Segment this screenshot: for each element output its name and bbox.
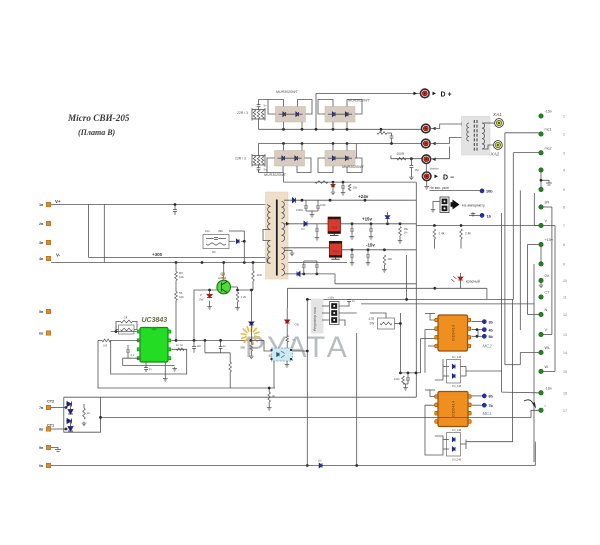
wire pack top up xyxy=(258,100,260,105)
svg-text:1k 1m: 1k 1m xyxy=(176,343,183,347)
wire MUR3020WT B internal xyxy=(328,113,352,115)
diode LED krasny xyxy=(458,277,463,280)
node j15d xyxy=(399,222,402,225)
svg-text:0в: 0в xyxy=(39,464,44,468)
wire ct1 link xyxy=(66,420,67,422)
wire 22R/3 top captop xyxy=(258,104,260,110)
label +15v xyxy=(362,217,372,222)
svg-text:+300: +300 xyxy=(152,252,163,257)
wire rail -15v post xyxy=(342,249,417,251)
svg-text:3b: 3b xyxy=(489,320,494,324)
resistor R sense xyxy=(102,339,111,342)
wire T1 pri bot xyxy=(267,263,271,264)
diode MUR3020WT B D1 xyxy=(332,112,335,116)
terminal pin 9 xyxy=(539,262,543,266)
label R7 xyxy=(179,291,183,295)
wire rail 15v post xyxy=(341,223,417,225)
label 10b xyxy=(486,190,493,194)
capacitor C out xyxy=(410,166,414,168)
label Dbus xyxy=(318,459,321,463)
current transformer T2 body xyxy=(462,116,491,155)
svg-text:15n: 15n xyxy=(415,168,420,172)
opto arrows xyxy=(281,351,285,358)
resistor R47 xyxy=(380,322,392,325)
label 1k xyxy=(124,316,128,320)
wire cbotb w2 xyxy=(316,267,318,274)
svg-text:7b: 7b xyxy=(489,404,494,408)
ground gnd opto xyxy=(285,363,290,367)
diode D u4a xyxy=(452,364,455,368)
wire 7b w xyxy=(472,404,482,406)
ground gcol xyxy=(546,183,552,185)
wire cbota w2 xyxy=(303,267,305,274)
node j ct1 xyxy=(65,428,68,431)
node j24c xyxy=(364,199,367,202)
resistor R47 box xyxy=(378,318,395,329)
rectifier module MUR3020WT A xyxy=(276,107,306,123)
wire ct out xyxy=(101,416,532,418)
wire c15b w xyxy=(351,224,353,229)
svg-text:10n: 10n xyxy=(205,229,210,233)
arrow krasny xyxy=(451,276,457,282)
label CT2 xyxy=(47,400,54,404)
svg-text:22R / 3: 22R / 3 xyxy=(235,157,246,161)
svg-text:V+: V+ xyxy=(55,199,61,204)
label Q1 xyxy=(221,272,226,276)
wire U4 in2 xyxy=(434,338,435,340)
wire snubP xyxy=(206,238,226,240)
IC U2 UC3843 body xyxy=(140,328,168,363)
svg-text:Micro СВИ-205: Micro СВИ-205 xyxy=(67,113,130,123)
connector XP3 xyxy=(422,139,431,148)
wire 7v w xyxy=(51,407,66,409)
terminal pin 5 xyxy=(539,187,543,191)
label 100R xyxy=(397,152,405,156)
wire Q1 right xyxy=(231,286,238,288)
arrow I hook xyxy=(524,400,536,409)
IC U4 driver xyxy=(435,315,471,351)
wire h wl xyxy=(520,352,539,354)
node j snubP xyxy=(243,240,246,243)
watermark text xyxy=(245,331,349,364)
label MUR3020WT D xyxy=(342,165,365,169)
watermark sun xyxy=(241,326,260,345)
terminal 6b xyxy=(482,394,486,398)
wire q1 e down xyxy=(250,290,252,319)
label 1n2 xyxy=(223,344,227,348)
svg-text:Varistor: Varistor xyxy=(430,167,439,171)
resistor R b1 xyxy=(252,271,255,281)
label D15 xyxy=(301,227,304,231)
wire long 223 xyxy=(416,225,539,227)
svg-text:20k: 20k xyxy=(388,257,393,261)
label du5 top xyxy=(452,428,462,432)
wire reg out1 xyxy=(339,302,349,306)
resistor R 1k4 xyxy=(433,229,436,239)
diode ZD dbus xyxy=(331,184,335,186)
wire ct2 v xyxy=(70,404,72,410)
wire u4 d loop xyxy=(443,366,449,368)
wire dblue1 c xyxy=(250,340,252,343)
node j gcol xyxy=(540,179,543,182)
svg-text:I: I xyxy=(545,404,546,408)
svg-text:4: 4 xyxy=(563,169,565,173)
node j15a xyxy=(351,222,354,225)
label 1pc xyxy=(404,231,409,235)
wire 4b w xyxy=(472,329,482,331)
capacitor 22R/3 bot cb xyxy=(257,168,261,170)
wire c24b w2 xyxy=(317,208,319,211)
svg-text:9: 9 xyxy=(563,262,565,266)
diode opto led xyxy=(277,353,279,357)
wire rail bot down xyxy=(334,274,336,284)
connector XP4 xyxy=(422,155,431,164)
label 0V 10 xyxy=(545,274,550,278)
wire 6b w xyxy=(472,395,482,397)
wire u4 feedback xyxy=(466,370,502,372)
wire v 400 xyxy=(399,313,401,373)
label R7v xyxy=(179,295,184,299)
wire mc1 stub xyxy=(505,132,539,134)
rectifier module MUR3020WT D xyxy=(325,151,355,167)
svg-text:MUR3020WT: MUR3020WT xyxy=(276,90,299,94)
gnd U4 xyxy=(425,313,435,315)
node j291 xyxy=(433,287,436,290)
wire CT in b xyxy=(466,137,469,139)
node j372c xyxy=(415,372,418,375)
wire u5 frame L xyxy=(430,390,435,397)
wire rail2 xyxy=(259,143,422,145)
capacitor C 24b xyxy=(316,206,320,208)
connector XA2 xyxy=(494,141,503,150)
wire bridge A loop2 xyxy=(298,100,313,115)
capacitor C o2 xyxy=(219,347,223,349)
snubber box xyxy=(203,235,229,249)
wire r14 down xyxy=(433,239,435,249)
T2 core xyxy=(474,120,477,151)
wire reg w1 xyxy=(322,305,330,307)
wire XP4 up xyxy=(432,147,450,159)
wire rchain a xyxy=(175,263,177,272)
diode D u5b xyxy=(452,447,455,451)
ground gnd out xyxy=(409,176,414,180)
label 8в xyxy=(39,428,44,432)
pin number 14 xyxy=(563,351,567,355)
terminal 4в xyxy=(46,256,50,260)
wire snubP out xyxy=(229,240,235,242)
svg-text:1.2k: 1.2k xyxy=(241,295,247,299)
svg-text:5b: 5b xyxy=(489,335,494,339)
svg-text:XA2: XA2 xyxy=(490,152,500,157)
node j15b xyxy=(370,222,373,225)
svg-text:17: 17 xyxy=(563,409,567,413)
title (Плата В) xyxy=(78,128,116,137)
wire D+ to XP4 link xyxy=(425,164,427,172)
svg-text:6в: 6в xyxy=(39,332,44,336)
label +15v 8 xyxy=(545,238,553,242)
node j372b xyxy=(407,372,410,375)
wire gcol 4-5 xyxy=(540,170,542,189)
resistor R low xyxy=(229,362,232,372)
wire rsense L xyxy=(98,339,102,341)
resistor R fb xyxy=(121,328,133,331)
wire u2 low v2 xyxy=(229,353,231,362)
ground gnd D- xyxy=(424,185,429,189)
wire reg out2 xyxy=(339,312,357,314)
wire fb in xyxy=(111,331,137,333)
label +24v xyxy=(358,194,369,199)
wire 8v w xyxy=(51,428,66,430)
wire rb1 jog xyxy=(251,289,253,291)
svg-text:6: 6 xyxy=(563,206,565,210)
svg-text:+15v: +15v xyxy=(328,296,335,300)
svg-text:7915: 7915 xyxy=(332,250,339,254)
svg-text:1N_148: 1N_148 xyxy=(452,458,462,462)
wire stub A283.5 xyxy=(283,122,285,129)
wire h 299 xyxy=(307,298,513,300)
wire 0v bus xyxy=(51,465,535,467)
svg-text:(Плата В): (Плата В) xyxy=(78,128,116,137)
capacitor C snubP xyxy=(214,238,218,240)
resistor R7 xyxy=(175,292,178,301)
svg-text:mc1: mc1 xyxy=(545,128,552,132)
label MUR3020WT B xyxy=(348,99,371,103)
wire MUR3020WT D internal xyxy=(328,157,352,159)
wire MUR3020WT A internal xyxy=(279,113,303,115)
wire c15b w2 xyxy=(351,231,353,235)
IC U2 pin L3 xyxy=(137,348,140,351)
wire 24gnd xyxy=(306,211,318,213)
diode LED blue 15v xyxy=(385,216,389,219)
label Регулятор тока xyxy=(313,307,317,331)
resistor R mid1 xyxy=(402,376,405,384)
arrow D+ arrow xyxy=(433,92,436,96)
diode D bus xyxy=(319,463,322,467)
node j rail2 302 xyxy=(301,142,304,145)
svg-text:D −: D − xyxy=(443,174,454,181)
label 1.4k xyxy=(439,232,445,236)
wire frame397 xyxy=(64,396,417,398)
optocoupler U3 xyxy=(272,348,293,361)
svg-text:3: 3 xyxy=(563,151,565,155)
wire cmid1 b xyxy=(407,380,409,384)
IC U2 pin R3 xyxy=(168,348,171,351)
label -16v 16 xyxy=(545,386,552,390)
svg-text:w: w xyxy=(293,339,295,342)
ground gnd cm15a xyxy=(350,261,355,265)
wire bridge C loop1b xyxy=(267,166,283,173)
ground gnd rb2 xyxy=(235,306,240,310)
wire cap drop2 xyxy=(410,168,412,176)
label V+ xyxy=(55,199,61,204)
wire cu2b a xyxy=(145,362,147,368)
wire rail1 xyxy=(259,128,422,130)
svg-text:1в: 1в xyxy=(39,203,44,207)
wire CT in a xyxy=(466,123,469,125)
svg-text:9n: 9n xyxy=(264,104,267,108)
label A3811 xyxy=(218,276,227,280)
wire ct1 b xyxy=(127,352,129,358)
svg-text:-16v: -16v xyxy=(545,386,552,390)
winding T1 sec a xyxy=(282,202,285,219)
svg-text:22R / 3: 22R / 3 xyxy=(237,111,248,115)
label 100n mid xyxy=(394,377,400,381)
label varistor2 xyxy=(430,167,439,171)
svg-text:Не вкл. узле: Не вкл. узле xyxy=(430,186,450,190)
wire opto in2 xyxy=(264,340,272,351)
resistor R 2k1w xyxy=(268,392,271,402)
terminal pin 15 xyxy=(539,369,543,373)
wire T1 pri top xyxy=(267,205,271,207)
label du4 bot xyxy=(452,384,462,388)
capacitor 22R/3 top ca xyxy=(257,105,261,107)
arrow t1 tap xyxy=(286,222,290,226)
resistor R 2k4 xyxy=(460,229,463,239)
label du5 bot xyxy=(452,458,462,462)
wire fb in2 xyxy=(115,326,117,332)
pin number 10 xyxy=(563,279,567,283)
ground gnd 1b xyxy=(471,212,476,216)
label ON xyxy=(295,323,300,327)
wire rail3 hook xyxy=(390,155,392,158)
wire rchain b xyxy=(175,281,177,292)
svg-text:5в: 5в xyxy=(39,310,44,314)
label ne vkl xyxy=(430,186,450,190)
svg-text:MC1: MC1 xyxy=(483,411,493,416)
diode MUR3020WT D D1 xyxy=(332,156,335,160)
label 5в xyxy=(39,310,44,314)
terminal pin 11 xyxy=(539,295,543,299)
label R6 xyxy=(179,271,183,275)
svg-text:РУАТА: РУАТА xyxy=(245,331,349,364)
diode MUR3020WT D D2 xyxy=(345,156,348,160)
wire u4 d loop2 xyxy=(443,375,449,377)
resistor R snub top xyxy=(377,132,387,135)
svg-text:ON: ON xyxy=(295,323,300,327)
svg-text:2в: 2в xyxy=(39,222,44,226)
resistor pack 22R/3 top bars xyxy=(252,108,265,121)
svg-text:V: V xyxy=(545,219,548,223)
svg-text:1n: 1n xyxy=(149,367,153,371)
wire bridge B loop2 xyxy=(347,100,362,115)
wire stub B333 xyxy=(332,122,334,129)
winding T2 secondary xyxy=(482,123,485,149)
node j rail1 283.5 xyxy=(282,128,285,131)
label 10n xyxy=(205,229,210,233)
svg-text:10n: 10n xyxy=(197,344,202,348)
wire u4 d right xyxy=(461,366,467,368)
wire D+ drop xyxy=(315,93,317,129)
wire XA2 wire xyxy=(482,145,493,149)
IC U2 notch xyxy=(151,328,157,331)
ground gnd amp xyxy=(431,208,436,212)
wire cm15b w xyxy=(367,250,369,255)
label w dred xyxy=(293,339,295,342)
wire ct out up xyxy=(531,410,539,417)
svg-text:100R: 100R xyxy=(397,152,405,156)
label na ampermetr xyxy=(462,204,485,208)
node jbotb xyxy=(316,273,319,276)
node j ct2 xyxy=(65,406,68,409)
node j rb1 xyxy=(252,261,255,264)
capacitor C 15a xyxy=(315,229,319,231)
node j zd xyxy=(208,289,211,292)
wire c15a w xyxy=(316,224,318,229)
wire U4 left frame xyxy=(425,330,435,373)
label MC1 xyxy=(483,411,493,416)
svg-text:39k: 39k xyxy=(218,229,223,233)
wire h w xyxy=(505,364,520,366)
wire frame U2 left xyxy=(111,340,187,374)
wire rb1 dn xyxy=(252,281,254,290)
label I 17 xyxy=(545,404,546,408)
resistor 22R/3 bot r1 xyxy=(257,156,260,165)
svg-text:100n: 100n xyxy=(394,377,400,381)
wire v n xyxy=(527,245,529,315)
capacitor C input xyxy=(173,210,177,212)
diode MUR3020WT C D2 xyxy=(295,156,298,160)
transistor CT1 xyxy=(67,419,73,432)
wire frame U2 inner xyxy=(123,358,175,365)
node j bus356 xyxy=(355,464,358,467)
wire midgnd xyxy=(403,384,408,386)
wire mc2 stub xyxy=(513,152,539,154)
svg-text:MUR3020WT: MUR3020WT xyxy=(342,165,365,169)
wire XA1 wire xyxy=(482,122,495,124)
arrow XP4 arrow xyxy=(432,157,435,161)
capacitor C bota xyxy=(302,265,306,267)
resistor R out xyxy=(397,157,406,160)
wire V- bus xyxy=(51,262,347,264)
capacitor C m15a xyxy=(350,255,354,257)
connector D+ xyxy=(421,89,430,98)
capacitor C m15b xyxy=(366,255,370,257)
wire v sR-V xyxy=(551,207,553,335)
wire h 288 xyxy=(288,287,487,289)
wire bridge D loop xyxy=(318,158,333,173)
label 7в xyxy=(39,406,44,410)
wire h 16 xyxy=(502,391,539,394)
wire dbus down xyxy=(426,181,428,185)
label 7b xyxy=(489,404,494,408)
svg-text:10: 10 xyxy=(563,279,567,283)
wire gcol gnd branch xyxy=(541,180,549,183)
wire 5b w xyxy=(472,335,482,337)
wire MUR3020WT C internal xyxy=(278,157,302,159)
transistor CT2 xyxy=(67,402,73,415)
wire U4 in top xyxy=(430,314,435,321)
wire V7-W end xyxy=(543,370,555,372)
pin number 6 xyxy=(563,206,565,210)
label 10n2 xyxy=(149,367,153,371)
label W 15 xyxy=(545,365,549,369)
wire bus up xyxy=(534,442,536,466)
terminal 7b xyxy=(482,403,486,407)
pin number 1 xyxy=(563,115,565,119)
winding T1 sec d xyxy=(282,264,285,276)
node j snub xyxy=(380,128,383,131)
arrow D+ arrow in xyxy=(414,92,417,96)
label krasny xyxy=(466,280,480,284)
label NF xyxy=(212,250,216,254)
svg-text:mc2: mc2 xyxy=(545,146,552,150)
wire rail -15v pre xyxy=(284,247,329,249)
label 1в xyxy=(39,203,44,207)
node jQ1 xyxy=(222,261,225,264)
label 22R/3 top xyxy=(237,111,248,115)
svg-text:11: 11 xyxy=(563,296,567,300)
node j24b xyxy=(329,199,332,202)
